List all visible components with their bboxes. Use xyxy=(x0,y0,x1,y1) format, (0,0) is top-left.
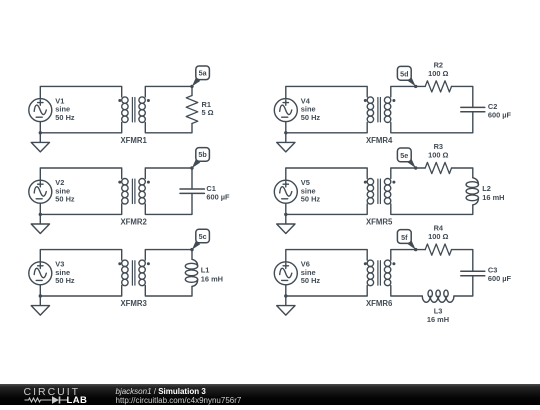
node 5a xyxy=(190,66,209,88)
svg-text:50 Hz: 50 Hz xyxy=(55,195,75,204)
wire secondary loop bottom c2 xyxy=(145,193,192,214)
ground V2 xyxy=(31,214,49,233)
inductor L2 xyxy=(466,178,478,205)
svg-text:600 µF: 600 µF xyxy=(206,193,230,202)
ground V4 xyxy=(277,133,295,152)
junction dot V5 bottom xyxy=(284,213,287,216)
wire right side down c6 xyxy=(454,276,473,296)
wire secondary loop bottom c1 xyxy=(145,122,192,132)
voltage source V5 xyxy=(274,180,297,203)
wire secondary loop bottom c4 xyxy=(391,112,473,133)
svg-text:5f: 5f xyxy=(401,233,408,242)
svg-text:16 mH: 16 mH xyxy=(482,193,504,202)
resistor R4 xyxy=(425,244,451,255)
label C1 600 uF xyxy=(206,184,230,202)
resistor R1 xyxy=(186,96,198,124)
svg-text:XFMR1: XFMR1 xyxy=(120,136,147,145)
label L3 16 mH xyxy=(427,307,449,324)
transformer XFMR1 xyxy=(118,97,150,123)
node 5b xyxy=(190,148,209,170)
wire V3 primary loop bottom xyxy=(40,285,121,296)
ground V6 xyxy=(277,296,295,315)
svg-text:XFMR2: XFMR2 xyxy=(120,217,147,226)
wire secondary loop top c5 xyxy=(391,168,425,179)
label R2 100 ohm xyxy=(428,60,448,78)
wire V2 primary loop top xyxy=(40,168,121,180)
label V6 sine 50 Hz xyxy=(301,260,321,286)
label C3 600 uF xyxy=(488,265,512,283)
junction dot V4 bottom xyxy=(284,131,287,134)
node 5c xyxy=(190,229,209,251)
inductor L1 xyxy=(185,259,197,286)
svg-text:XFMR6: XFMR6 xyxy=(366,299,393,308)
label C2 600 uF xyxy=(488,102,512,120)
label L2 16 mH xyxy=(482,184,504,202)
ground V1 xyxy=(31,133,49,152)
wire secondary top right c6 xyxy=(452,250,473,272)
capacitor C2 xyxy=(461,107,485,111)
label V2 sine 50 Hz xyxy=(55,178,75,204)
wire secondary loop top c1 xyxy=(145,86,192,97)
ground V5 xyxy=(277,214,295,233)
label R1 5 ohm xyxy=(202,100,214,117)
svg-text:XFMR4: XFMR4 xyxy=(366,136,393,145)
svg-text:50 Hz: 50 Hz xyxy=(55,113,75,122)
wire V1 primary loop top xyxy=(40,86,121,98)
node 5d xyxy=(397,66,417,88)
junction dot V6 bottom xyxy=(284,294,287,297)
label R3 100 ohm xyxy=(428,142,448,160)
wire V6 primary loop top xyxy=(286,250,367,262)
resistor R3 xyxy=(425,162,451,173)
transformer XFMR3 xyxy=(118,260,150,286)
wire secondary loop bottom c3 xyxy=(145,286,192,296)
voltage source V2 xyxy=(29,180,52,203)
svg-text:50 Hz: 50 Hz xyxy=(301,276,321,285)
svg-text:L2: L2 xyxy=(482,184,491,193)
label V4 sine 50 Hz xyxy=(301,96,321,122)
svg-text:C3: C3 xyxy=(488,265,497,274)
ground V3 xyxy=(31,296,49,315)
wire secondary loop top c3 xyxy=(145,250,192,261)
CircuitLab logo xyxy=(20,384,100,405)
svg-text:XFMR5: XFMR5 xyxy=(366,217,393,226)
transformer XFMR4 xyxy=(364,97,396,123)
voltage source V4 xyxy=(274,99,297,122)
junction dot V2 bottom xyxy=(39,213,42,216)
svg-text:5a: 5a xyxy=(199,69,208,78)
svg-text:16 mH: 16 mH xyxy=(427,315,449,324)
wire secondary top right c4 xyxy=(452,86,473,107)
resistor R2 xyxy=(425,81,451,92)
logo schematic doodle xyxy=(25,397,68,404)
capacitor C1 xyxy=(180,189,204,193)
capacitor C3 xyxy=(461,271,485,275)
svg-text:5b: 5b xyxy=(198,150,207,159)
svg-text:600 µF: 600 µF xyxy=(488,274,512,283)
svg-text:5 Ω: 5 Ω xyxy=(202,108,214,117)
wire V4 primary loop bottom xyxy=(286,122,367,133)
svg-text:C1: C1 xyxy=(206,184,215,193)
junction dot V1 bottom xyxy=(39,131,42,134)
wire secondary loop bottom c6 xyxy=(391,286,423,296)
label V3 sine 50 Hz xyxy=(55,260,75,286)
svg-text:5e: 5e xyxy=(400,151,408,160)
logo diode triangle xyxy=(52,396,59,404)
wire V2 primary loop bottom xyxy=(40,203,121,214)
wire secondary loop top c6 xyxy=(391,250,425,261)
svg-text:600 µF: 600 µF xyxy=(488,111,512,120)
svg-text:XFMR3: XFMR3 xyxy=(120,299,147,308)
svg-text:50 Hz: 50 Hz xyxy=(55,276,75,285)
wire secondary loop top c2 xyxy=(145,168,192,189)
svg-text:C2: C2 xyxy=(488,102,497,111)
transformer XFMR6 xyxy=(364,260,396,286)
svg-text:L1: L1 xyxy=(201,266,210,275)
label R4 100 ohm xyxy=(428,224,448,242)
wire secondary top right c5 xyxy=(452,168,473,178)
footer bar xyxy=(0,384,540,405)
wire V1 primary loop bottom xyxy=(40,122,121,133)
wire V3 primary loop top xyxy=(40,250,121,262)
svg-text:100 Ω: 100 Ω xyxy=(428,151,448,160)
node 5f xyxy=(397,230,417,252)
junction dot V3 bottom xyxy=(39,294,42,297)
voltage source V1 xyxy=(29,99,52,122)
label V1 sine 50 Hz xyxy=(55,96,75,122)
footer title line xyxy=(116,387,242,406)
voltage source V3 xyxy=(29,262,52,285)
wire V5 primary loop bottom xyxy=(286,203,367,214)
svg-text:100 Ω: 100 Ω xyxy=(428,232,448,241)
inductor L3 xyxy=(422,290,454,302)
wire secondary loop bottom c5 xyxy=(391,204,473,214)
svg-text:16 mH: 16 mH xyxy=(201,274,223,283)
wire secondary loop top c4 xyxy=(391,86,425,97)
svg-text:LAB: LAB xyxy=(67,395,88,405)
wire V6 primary loop bottom xyxy=(286,285,367,296)
svg-text:100 Ω: 100 Ω xyxy=(428,69,448,78)
svg-text:50 Hz: 50 Hz xyxy=(301,195,321,204)
node 5e xyxy=(397,148,417,170)
svg-text:5c: 5c xyxy=(199,232,207,241)
voltage source V6 xyxy=(274,262,297,285)
svg-text:50 Hz: 50 Hz xyxy=(301,113,321,122)
transformer XFMR5 xyxy=(364,179,396,205)
label V5 sine 50 Hz xyxy=(301,178,321,204)
wire V5 primary loop top xyxy=(286,168,367,180)
svg-text:5d: 5d xyxy=(400,70,408,79)
transformer XFMR2 xyxy=(118,179,150,205)
wire V4 primary loop top xyxy=(286,86,367,98)
label L1 16 mH xyxy=(201,266,223,284)
